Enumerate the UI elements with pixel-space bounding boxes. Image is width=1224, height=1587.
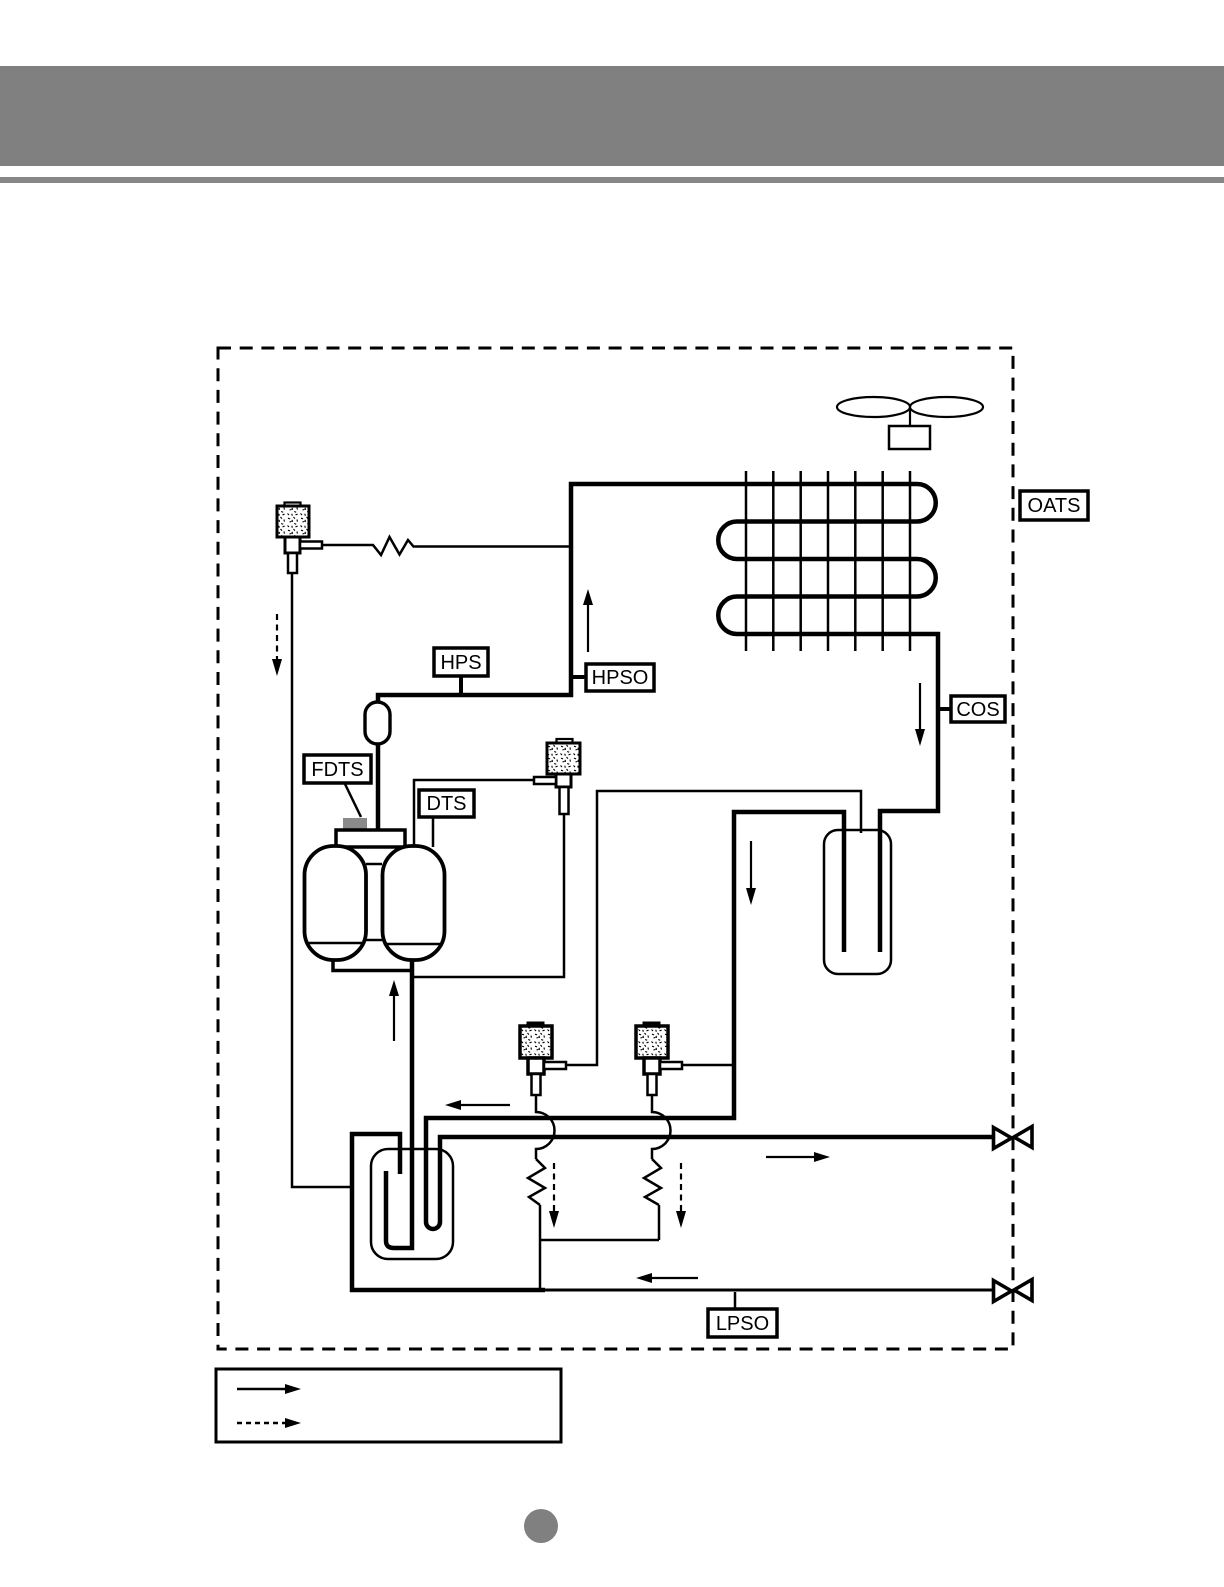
svg-text:HPS: HPS [440, 652, 481, 674]
svg-text:COS: COS [956, 699, 999, 721]
svg-text:FDTS: FDTS [311, 759, 363, 781]
svg-text:OATS: OATS [1028, 495, 1081, 517]
svg-text:LPSO: LPSO [716, 1313, 769, 1335]
svg-text:HPSO: HPSO [592, 667, 649, 689]
svg-text:DTS: DTS [427, 793, 467, 815]
